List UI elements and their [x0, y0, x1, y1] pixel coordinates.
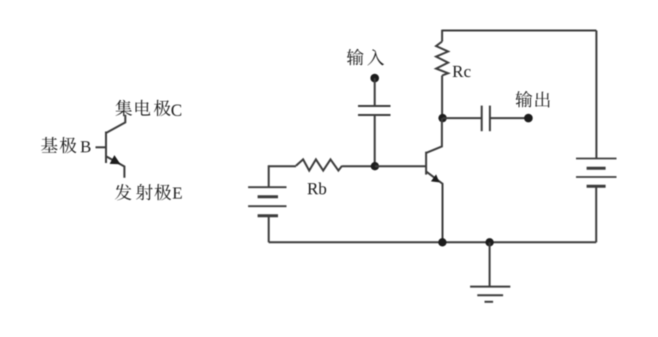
resistor Rb	[296, 159, 342, 170]
battery BT2 bottom lead	[595, 186, 597, 242]
wire Rb to base node	[342, 165, 375, 167]
wire top rail	[442, 30, 596, 32]
wire ground lead	[489, 242, 491, 286]
ground symbol	[470, 287, 510, 302]
junction base node	[371, 162, 379, 170]
capacitor C2 output coupling	[482, 106, 490, 132]
battery BT1 top lead	[268, 165, 270, 187]
capacitor C1 input coupling	[358, 106, 391, 115]
resistor Rc bottom lead	[441, 76, 443, 119]
transistor emitter lead	[106, 156, 124, 178]
transistor base lead	[96, 146, 107, 148]
transistor emitter arrow	[110, 155, 121, 164]
wire input terminal to C1	[374, 78, 376, 106]
label input 输入	[347, 49, 384, 66]
wire C2 to output terminal	[490, 117, 529, 119]
label base 基极B	[41, 137, 90, 153]
resistor Rc	[436, 42, 448, 76]
junction emitter-rail node	[438, 238, 446, 246]
label output 输出	[515, 91, 549, 108]
transistor Q1 bar	[425, 152, 427, 175]
label emitter 发射极E	[115, 184, 182, 200]
junction ground node	[485, 238, 493, 246]
transistor symbol bar	[105, 132, 107, 164]
label Rc	[453, 66, 471, 77]
wire battery BT1 to Rb	[268, 165, 296, 167]
battery BT1 bottom lead	[268, 216, 270, 243]
wire bottom rail	[269, 241, 597, 243]
transistor Q1 emitter lead	[426, 171, 442, 242]
battery BT2 plates	[576, 159, 617, 187]
battery BT2 top lead	[595, 31, 597, 159]
wire collector node to C2	[443, 117, 482, 119]
battery BT1 plates	[248, 187, 286, 216]
label collector 集电极C	[116, 100, 182, 116]
junction collector node	[438, 114, 446, 122]
label Rb	[307, 182, 326, 194]
wire C1 to base node	[374, 115, 376, 166]
wire base node to Q1 base	[375, 165, 426, 167]
resistor Rc top lead	[441, 30, 443, 42]
output terminal node	[524, 114, 533, 123]
transistor Q1 emitter arrow	[431, 174, 440, 182]
transistor collector lead	[106, 115, 125, 133]
input terminal node	[370, 74, 379, 83]
transistor Q1 collector lead	[426, 118, 442, 153]
